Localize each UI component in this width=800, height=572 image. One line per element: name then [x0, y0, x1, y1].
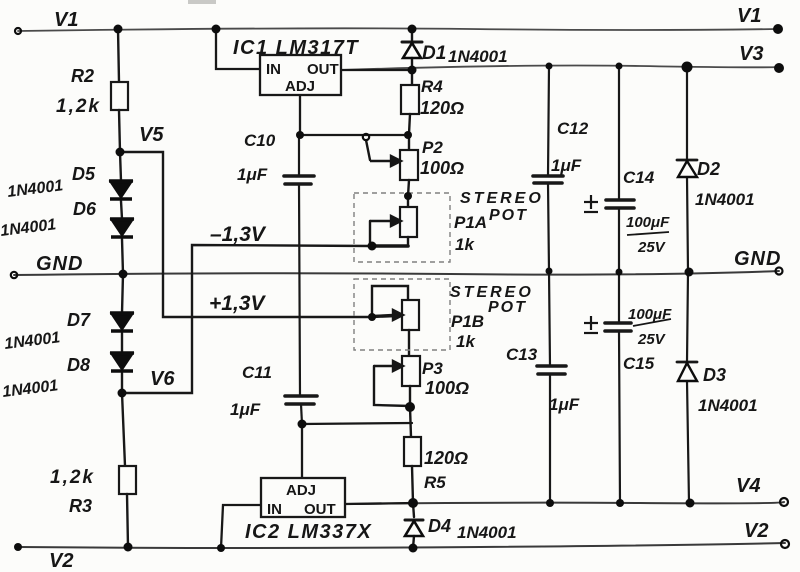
svg-text:+1,3V: +1,3V [209, 292, 266, 315]
svg-text:D4: D4 [428, 516, 451, 536]
svg-text:C12: C12 [557, 119, 589, 138]
svg-text:GND: GND [36, 253, 83, 275]
svg-text:IN: IN [266, 61, 281, 78]
svg-text:V5: V5 [139, 124, 164, 146]
svg-text:C14: C14 [623, 168, 655, 187]
svg-text:IC1 LM317T: IC1 LM317T [233, 37, 359, 59]
svg-text:C15: C15 [623, 354, 655, 373]
svg-text:1N4001: 1N4001 [698, 396, 758, 415]
svg-text:V6: V6 [150, 368, 175, 390]
svg-text:25V: 25V [637, 331, 667, 348]
svg-text:1μF: 1μF [551, 156, 582, 175]
svg-text:ADJ: ADJ [285, 78, 315, 95]
svg-text:1,2k: 1,2k [56, 96, 101, 117]
svg-text:R4: R4 [421, 77, 443, 96]
svg-text:V1: V1 [54, 9, 78, 31]
svg-text:R5: R5 [424, 473, 446, 492]
svg-text:V1: V1 [737, 5, 761, 27]
svg-text:1,2k: 1,2k [50, 467, 95, 488]
svg-text:GND: GND [734, 248, 781, 270]
svg-text:1N4001: 1N4001 [457, 523, 517, 542]
svg-text:C13: C13 [506, 345, 538, 364]
svg-text:D6: D6 [73, 199, 97, 219]
svg-text:OUT: OUT [304, 501, 336, 518]
svg-text:P3: P3 [422, 359, 443, 378]
svg-text:1μF: 1μF [237, 165, 268, 184]
svg-text:C10: C10 [244, 131, 276, 150]
svg-text:ADJ: ADJ [286, 482, 316, 499]
svg-text:100Ω: 100Ω [425, 378, 469, 398]
svg-text:C11: C11 [242, 363, 272, 382]
svg-text:STEREO: STEREO [460, 190, 544, 207]
svg-text:1k: 1k [455, 235, 475, 254]
svg-text:100μF: 100μF [626, 214, 670, 231]
svg-text:D7: D7 [67, 310, 91, 330]
svg-text:120Ω: 120Ω [420, 98, 464, 118]
svg-text:D5: D5 [72, 164, 96, 184]
svg-text:V3: V3 [739, 43, 763, 65]
svg-text:R3: R3 [69, 496, 92, 516]
svg-text:1μF: 1μF [230, 400, 261, 419]
svg-text:P1A: P1A [454, 213, 487, 232]
svg-text:P1B: P1B [451, 312, 484, 331]
svg-text:1N4001: 1N4001 [448, 47, 508, 66]
svg-text:IN: IN [267, 501, 282, 518]
svg-text:IC2 LM337X: IC2 LM337X [245, 521, 372, 543]
svg-text:V2: V2 [49, 550, 73, 572]
svg-text:–1,3V: –1,3V [210, 223, 267, 246]
svg-text:1μF: 1μF [549, 395, 580, 414]
svg-text:V4: V4 [736, 475, 760, 497]
svg-text:D2: D2 [697, 159, 720, 179]
svg-text:D3: D3 [703, 365, 726, 385]
svg-text:POT: POT [489, 207, 528, 224]
svg-text:P2: P2 [422, 138, 443, 157]
svg-text:120Ω: 120Ω [424, 448, 468, 468]
svg-text:D1: D1 [422, 43, 446, 64]
svg-text:1k: 1k [456, 332, 476, 351]
svg-text:1N4001: 1N4001 [695, 190, 755, 209]
svg-text:OUT: OUT [307, 61, 339, 78]
svg-text:D8: D8 [67, 355, 90, 375]
svg-text:POT: POT [488, 299, 527, 316]
svg-text:V2: V2 [744, 520, 768, 542]
svg-text:25V: 25V [637, 239, 667, 256]
svg-text:R2: R2 [71, 66, 94, 86]
svg-text:100Ω: 100Ω [420, 158, 464, 178]
